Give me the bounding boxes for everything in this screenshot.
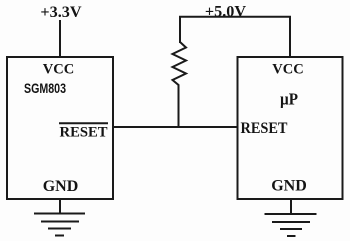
svg-text:+5.0V: +5.0V [205, 2, 246, 20]
svg-text:VCC: VCC [272, 62, 303, 78]
svg-text:GND: GND [271, 178, 307, 195]
svg-text:µP: µP [280, 90, 298, 109]
svg-text:+3.3V: +3.3V [40, 3, 81, 21]
svg-text:RESET: RESET [60, 125, 108, 141]
svg-text:SGM803: SGM803 [24, 81, 66, 96]
svg-text:RESET: RESET [241, 120, 288, 137]
svg-text:VCC: VCC [43, 62, 74, 78]
svg-text:GND: GND [43, 178, 79, 195]
